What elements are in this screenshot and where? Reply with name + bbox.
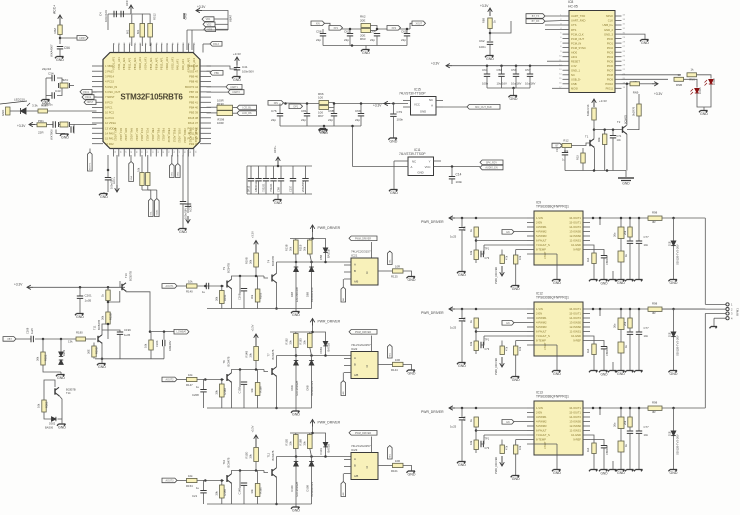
capacitor C96 22p <box>331 114 337 116</box>
resistor R19B 30k <box>254 253 259 267</box>
resistor R62 20E <box>361 24 371 28</box>
svg-text:22p: 22p <box>271 118 276 122</box>
svg-text:BT_TX: BT_TX <box>532 15 540 18</box>
wire <box>317 332 326 342</box>
svg-text:PA6_AD12: PA6_AD12 <box>130 128 134 141</box>
wire <box>295 366 297 409</box>
svg-text:BT_RX: BT_RX <box>532 20 540 23</box>
svg-text:20E: 20E <box>360 19 365 23</box>
svg-text:26: 26 <box>623 51 626 53</box>
wire <box>232 471 241 475</box>
ground <box>389 190 398 192</box>
svg-text:22p/16: 22p/16 <box>42 67 52 71</box>
power +3.3V arrow <box>196 8 202 12</box>
MCU right pin PB8 45 <box>200 81 211 83</box>
svg-text:C237: C237 <box>289 185 293 192</box>
wire <box>257 471 259 484</box>
wire <box>365 46 367 50</box>
svg-text:LED210: LED210 <box>14 98 25 102</box>
resistor RSa <box>618 251 624 262</box>
svg-text:PWR_DRIVER: PWR_DRIVER <box>318 320 341 324</box>
power arrow PWR_DRIVER <box>449 307 455 311</box>
ground <box>640 40 649 42</box>
svg-text:8-TEMP: 8-TEMP <box>536 438 546 442</box>
ground (heavy) <box>618 178 634 181</box>
svg-text:RESET: RESET <box>571 59 580 63</box>
wire <box>233 112 238 114</box>
svg-text:GND: GND <box>100 195 108 199</box>
wire <box>501 341 503 347</box>
svg-text:C98: C98 <box>277 187 281 192</box>
MCU right pin VSS3 47 <box>200 70 211 72</box>
wire <box>265 181 267 194</box>
svg-text:T9: T9 <box>222 266 226 270</box>
wire <box>582 163 584 171</box>
svg-text:11-ISNS1: 11-ISNS1 <box>570 429 582 433</box>
svg-text:GND: GND <box>179 230 187 234</box>
junction <box>603 128 606 131</box>
power flag down <box>500 266 505 276</box>
wire <box>620 330 622 343</box>
wire <box>119 335 121 359</box>
svg-text:100n/16V: 100n/16V <box>104 10 108 22</box>
MCU top pin VDD2 <box>166 44 168 53</box>
wire <box>295 262 297 267</box>
svg-text:HC-05: HC-05 <box>568 4 578 8</box>
svg-text:30k: 30k <box>101 315 105 320</box>
svg-text:GND: GND <box>700 112 708 116</box>
wire <box>638 335 640 371</box>
svg-text:PB1_AD12: PB1_AD12 <box>156 128 160 141</box>
wire <box>311 457 313 462</box>
wire <box>232 276 241 280</box>
svg-text:23: 23 <box>623 64 626 66</box>
svg-text:GND: GND <box>670 471 678 475</box>
wire pin4 <box>514 322 527 324</box>
junction <box>529 64 532 67</box>
junction <box>255 368 258 371</box>
wire <box>60 37 77 39</box>
resistor R186 1k <box>106 290 110 301</box>
resistor R13 619k <box>592 108 596 120</box>
MCU left pin 7 NRST <box>92 96 103 98</box>
wire <box>306 116 308 126</box>
svg-text:100n: 100n <box>479 45 486 49</box>
inductor Lb <box>618 318 624 330</box>
wire <box>182 204 184 228</box>
zener D10B <box>309 462 314 467</box>
svg-text:R187: R187 <box>41 104 49 108</box>
svg-text:R98: R98 <box>652 211 658 215</box>
svg-text:6 OSC_OUT: 6 OSC_OUT <box>105 90 121 94</box>
svg-text:GND: GND <box>61 136 69 140</box>
svg-text:OSC2: OSC2 <box>85 96 92 99</box>
svg-text:GND: GND <box>553 281 561 285</box>
wire <box>590 245 594 253</box>
svg-text:A: A <box>411 165 413 169</box>
IC23 pin 1 <box>344 459 351 461</box>
svg-text:100n/50V: 100n/50V <box>242 70 254 74</box>
wire <box>239 370 241 388</box>
svg-text:3R: 3R <box>652 410 656 414</box>
net flag BT TX <box>526 14 545 19</box>
net flag EN IC13 <box>502 420 514 425</box>
gnd rail <box>207 407 312 409</box>
wire <box>273 166 275 178</box>
svg-text:5 OSC_IN: 5 OSC_IN <box>105 85 117 89</box>
svg-text:C56: C56 <box>316 30 322 34</box>
svg-text:100n/16V: 100n/16V <box>184 208 188 219</box>
wire <box>393 161 395 189</box>
wire <box>673 218 675 241</box>
power down arrow <box>186 216 191 223</box>
HC-05 pin USB_D- <box>563 78 570 80</box>
wire <box>207 70 211 72</box>
diode D101 BAS16 <box>323 443 327 447</box>
ferrite bead FB2 <box>140 24 145 38</box>
wire <box>317 433 326 443</box>
svg-text:PWM_DRIVER: PWM_DRIVER <box>355 237 371 240</box>
wire <box>590 341 604 347</box>
wire <box>638 434 640 470</box>
svg-text:+3.3V: +3.3V <box>431 62 440 66</box>
capacitor C20B <box>241 289 247 291</box>
svg-text:XIN: XIN <box>316 22 320 25</box>
wire <box>612 138 614 171</box>
svg-text:1u: 1u <box>196 486 200 490</box>
resistor R9b 1k <box>474 318 478 328</box>
capacitor C89 <box>121 11 123 17</box>
svg-text:VSS1_AD12: VSS1_AD12 <box>178 128 182 143</box>
svg-text:13-ISNS0: 13-ISNS0 <box>569 420 581 424</box>
net flag LOWBAT <box>174 329 189 334</box>
svg-text:C79: C79 <box>397 110 403 114</box>
wire <box>312 326 314 333</box>
junction <box>592 308 595 311</box>
net flag <box>329 26 343 31</box>
svg-text:R98: R98 <box>652 302 658 306</box>
power arrow PWR_DRIVER <box>449 216 455 220</box>
wire RESET <box>547 60 563 62</box>
svg-text:C81: C81 <box>301 109 307 113</box>
net flag VDD <box>202 17 214 22</box>
svg-text:D101: D101 <box>319 448 323 455</box>
power +3.3V arrow <box>27 285 33 289</box>
svg-text:LCD1: LCD1 <box>698 87 702 94</box>
wire to flags <box>441 166 480 168</box>
wire <box>42 339 44 352</box>
power ACC+ arrow <box>58 15 63 25</box>
wire <box>276 376 278 408</box>
capacitor C58 <box>498 74 504 76</box>
wire <box>486 66 488 74</box>
svg-text:22p: 22p <box>301 118 306 122</box>
svg-text:D9B1: D9B1 <box>319 346 323 353</box>
svg-text:GND: GND <box>417 171 423 175</box>
MCU left pin 2 PA23 <box>92 70 103 72</box>
wire <box>515 77 517 89</box>
svg-text:15-IOUT1: 15-IOUT1 <box>569 312 581 316</box>
IC13 pin 14-IOUT2 <box>583 416 590 418</box>
svg-text:29: 29 <box>623 37 626 39</box>
resistor R16 40E <box>603 134 607 145</box>
svg-text:36: 36 <box>140 42 142 45</box>
svg-text:C71: C71 <box>617 134 622 138</box>
svg-text:BCB47B: BCB47B <box>97 320 101 330</box>
junction <box>204 378 207 381</box>
svg-text:LCD_BL: LCD_BL <box>242 107 252 110</box>
net flag BT_EN <box>552 143 562 148</box>
svg-text:PIO8: PIO8 <box>607 73 614 77</box>
svg-text:2-EN: 2-EN <box>536 411 542 415</box>
wire <box>325 346 327 356</box>
svg-text:R141: R141 <box>223 294 227 301</box>
wire <box>264 471 268 473</box>
MCU left pin 10 PC2 <box>92 112 103 114</box>
svg-text:IC22: IC22 <box>351 347 358 351</box>
svg-text:WX7806: WX7806 <box>50 129 54 140</box>
wire <box>349 36 351 46</box>
wire <box>322 29 324 34</box>
wire <box>527 253 557 255</box>
svg-text:T10: T10 <box>222 459 226 464</box>
MCU right pin PB7 43 <box>200 91 211 93</box>
svg-text:NC: NC <box>429 98 433 102</box>
capacitor C34 <box>52 75 54 81</box>
IC13 pin 8-TEMP <box>527 439 534 441</box>
svg-text:BAS1B: BAS1B <box>327 343 331 352</box>
svg-text:PIO11: PIO11 <box>606 87 614 91</box>
wire <box>102 330 120 335</box>
svg-text:PIO3: PIO3 <box>607 50 614 54</box>
HC-05 pin GND_3 <box>615 33 622 35</box>
svg-text:22p: 22p <box>355 118 360 122</box>
svg-text:C79: C79 <box>485 348 490 351</box>
wire <box>57 78 62 83</box>
svg-text:PWR_DRIVER: PWR_DRIVER <box>421 410 444 414</box>
MCU top pin VDD4 <box>139 44 141 53</box>
svg-text:1k4: 1k4 <box>586 257 590 262</box>
junction <box>59 37 62 40</box>
svg-text:27: 27 <box>623 46 626 48</box>
svg-text:GND: GND <box>641 41 649 45</box>
svg-text:EAC29R32B: EAC29R32B <box>295 482 299 497</box>
wire to MCU <box>74 124 97 126</box>
junction <box>163 330 166 333</box>
wire <box>481 245 484 254</box>
junction <box>461 308 464 311</box>
resistor R144 10R <box>393 362 404 366</box>
HC-05 pin CSB <box>563 83 570 85</box>
svg-text:GND: GND <box>670 281 678 285</box>
wire <box>280 166 282 178</box>
wire <box>257 396 259 409</box>
wire <box>116 155 118 185</box>
capacitor C56 22p <box>320 34 326 36</box>
wire pin4 <box>514 421 527 423</box>
wire <box>322 36 324 46</box>
wire <box>264 370 268 372</box>
wire <box>147 186 149 191</box>
resistor R182 30k <box>41 352 45 365</box>
power ACC+ arrow <box>276 157 281 166</box>
svg-text:AUDIO_EN: AUDIO_EN <box>485 167 497 170</box>
wire <box>187 29 228 31</box>
wire <box>92 91 97 93</box>
net flag vertical IC21 bottom <box>341 287 346 302</box>
svg-text:10k: 10k <box>518 445 522 450</box>
svg-text:100: 100 <box>318 96 323 100</box>
svg-text:IC23: IC23 <box>351 448 358 452</box>
svg-text:GND: GND <box>389 140 397 144</box>
ground <box>57 424 66 426</box>
wire <box>204 481 206 491</box>
resistor R155 30k <box>220 485 225 498</box>
junction <box>60 338 63 341</box>
svg-text:PR1: PR1 <box>38 119 44 123</box>
svg-text:1k: 1k <box>624 254 628 257</box>
svg-text:C79: C79 <box>485 257 490 260</box>
wire <box>107 180 109 192</box>
wire <box>197 480 224 482</box>
MCU bottom pin PA7 <box>134 149 136 157</box>
HC-05 pin PIO11 <box>615 87 622 89</box>
wire <box>629 244 631 280</box>
transistor T4 <box>272 273 276 282</box>
wire PIO9 <box>622 78 669 80</box>
svg-text:1u05: 1u05 <box>85 299 92 303</box>
MCU top pin PB14 <box>155 44 157 53</box>
capacitor C69 22p <box>358 114 364 116</box>
svg-text:16-IOUT1: 16-IOUT1 <box>569 307 581 311</box>
svg-text:+3.3V: +3.3V <box>251 425 255 432</box>
net flag EN IC12 <box>502 321 514 326</box>
net flag (vertical) A <box>129 162 134 182</box>
svg-text:7: 7 <box>560 42 562 44</box>
junction <box>592 407 595 410</box>
svg-text:10-GND: 10-GND <box>571 243 581 247</box>
net flag (vertical) D <box>155 199 160 217</box>
svg-text:4-PWM2: 4-PWM2 <box>536 321 547 325</box>
bottom rail <box>323 45 407 47</box>
junction <box>311 432 314 435</box>
wire <box>182 155 184 201</box>
resistor R6B 1k <box>488 18 492 29</box>
wire <box>620 239 622 252</box>
wire <box>295 272 297 309</box>
svg-text:A: A <box>354 263 356 267</box>
junction <box>324 455 327 458</box>
wire <box>108 13 131 15</box>
wire <box>311 467 313 505</box>
wire pin8 <box>516 249 527 251</box>
wire <box>204 380 206 390</box>
svg-text:1u25: 1u25 <box>30 328 34 334</box>
junction <box>277 165 280 168</box>
wire MOSI <box>552 87 563 89</box>
wire <box>325 23 331 29</box>
svg-text:C13: C13 <box>555 147 559 152</box>
wire <box>221 481 223 486</box>
svg-text:1k: 1k <box>624 345 628 348</box>
ground <box>589 280 598 282</box>
svg-text:TP1: TP1 <box>485 339 490 342</box>
resistor R63 20E <box>361 29 371 33</box>
resistor RSb <box>618 342 624 353</box>
svg-text:1-VIN: 1-VIN <box>536 216 543 220</box>
svg-text:PWR_DRIVER: PWR_DRIVER <box>318 226 341 230</box>
junction <box>221 285 224 288</box>
svg-text:GND: GND <box>233 78 241 82</box>
svg-text:C56: C56 <box>64 46 70 50</box>
ground <box>599 280 608 282</box>
svg-text:40E: 40E <box>597 137 601 142</box>
svg-text:CB0100: CB0100 <box>605 255 609 265</box>
svg-text:+3.3V: +3.3V <box>14 283 23 287</box>
wire <box>57 88 62 96</box>
capacitor C79b <box>481 342 483 348</box>
svg-text:9-REF: 9-REF <box>573 248 581 252</box>
svg-text:C77: C77 <box>644 326 650 330</box>
wire <box>236 70 238 76</box>
ground bar <box>183 13 185 19</box>
wire <box>612 362 614 371</box>
ground <box>625 371 634 373</box>
svg-text:6: 6 <box>560 37 562 39</box>
svg-text:GND: GND <box>362 51 370 55</box>
svg-text:1k: 1k <box>469 229 473 232</box>
svg-text:SDA2: SDA2 <box>156 209 159 215</box>
output rail <box>590 407 648 409</box>
wire <box>58 418 63 420</box>
wire <box>515 440 517 446</box>
capacitor C57 <box>527 74 533 76</box>
wire <box>156 190 158 199</box>
zener D4B <box>294 267 299 272</box>
resistor R11B 30k <box>308 240 313 254</box>
wire <box>207 112 218 114</box>
ground <box>552 470 561 472</box>
svg-text:100n: 100n <box>482 82 489 86</box>
svg-text:30k: 30k <box>249 353 253 358</box>
svg-text:A/B: A/B <box>354 373 358 377</box>
resistor R13B 30k <box>106 312 110 324</box>
resistor R9a 1k <box>474 227 478 237</box>
wire <box>475 237 477 250</box>
wire <box>451 167 453 177</box>
svg-text:LCD_RS: LCD_RS <box>242 112 252 115</box>
wire pin8 <box>516 439 527 441</box>
wire <box>593 264 595 280</box>
wire <box>475 260 477 264</box>
wire <box>177 379 187 381</box>
wire to pin4 <box>714 317 726 319</box>
svg-text:BC847B: BC847B <box>227 263 231 273</box>
svg-text:10R: 10R <box>395 265 400 269</box>
wire <box>475 351 477 355</box>
junction <box>239 469 242 472</box>
wire <box>61 419 63 424</box>
wire <box>638 94 640 104</box>
wire <box>93 357 95 359</box>
svg-text:BC847B: BC847B <box>271 256 275 266</box>
svg-text:10k: 10k <box>188 373 193 377</box>
svg-text:GND: GND <box>600 282 608 286</box>
svg-text:PB14_AF1: PB14_AF1 <box>154 57 158 70</box>
junction <box>275 307 278 310</box>
junction <box>275 503 278 506</box>
svg-text:4-PWM2: 4-PWM2 <box>536 420 547 424</box>
